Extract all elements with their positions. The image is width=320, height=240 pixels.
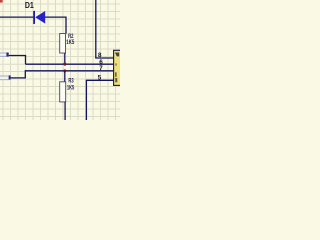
corner marker (red) [0,0,3,3]
svg-text:5: 5 [98,75,102,82]
svg-text:D1: D1 [25,0,34,10]
grid [0,0,120,120]
svg-text:1K5: 1K5 [66,40,74,46]
wire: vertical from bottom edge to IC pin 5 [86,80,113,120]
connector P1 upper pin box [0,53,9,57]
svg-text:R3: R3 [68,79,74,85]
sheet background [0,0,120,120]
diode D1 cathode bar [33,11,35,24]
connector P1 lower pin box [0,75,11,79]
wire: upper connector pin to step [9,56,26,65]
diode D1 triangle [35,11,45,24]
svg-text:7: 7 [99,65,103,72]
wire: R2 bottom pin [64,53,66,64]
wire: R3 top pin [64,71,66,82]
svg-text:1K5: 1K5 [67,86,75,92]
wire: vertical from top edge to IC pin 8 [96,0,114,58]
wire: R3 bottom pin to sheet bottom [64,102,66,120]
resistor R3 [60,82,66,102]
IC U1 body (cut off at right edge) [114,50,123,85]
junction dot at R3/pin7 net [63,69,66,72]
wire: lower connector pin stepping up to pin7 net [11,71,114,78]
wire: diode to corner and down to R2 [45,17,66,33]
IC pin name marks (clipped text inside body) [115,53,119,57]
wire: top net from left edge to diode [0,16,33,18]
wire: net to IC pin 6 [26,63,114,65]
resistor R2 [60,34,66,54]
junction dot at R2/pin6 net [63,63,66,66]
